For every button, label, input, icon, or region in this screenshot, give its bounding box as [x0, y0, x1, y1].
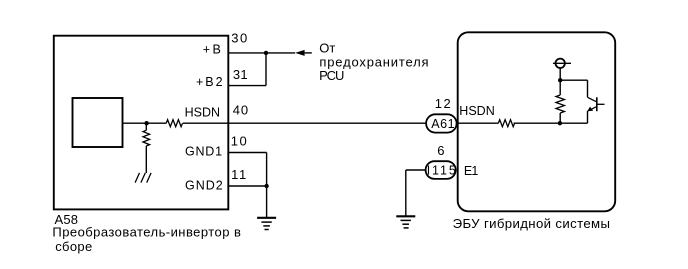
- converter box A58: [54, 36, 229, 210]
- svg-text:сборе: сборе: [55, 239, 92, 254]
- pin number 31: [233, 67, 248, 82]
- wire HSDN net: [228, 122, 457, 124]
- power node circle: [553, 59, 571, 68]
- svg-text:GND2: GND2: [185, 178, 224, 192]
- transistor Q internal: [587, 97, 604, 123]
- connector label A61: [431, 117, 455, 131]
- wire ground bus: [266, 153, 268, 218]
- svg-text:+B: +B: [203, 42, 223, 56]
- svg-text:GND1: GND1: [185, 145, 223, 159]
- svg-text:A61: A61: [431, 117, 455, 131]
- pin number 40: [233, 102, 249, 117]
- pin number 12: [435, 96, 453, 111]
- svg-text:31: 31: [233, 67, 248, 82]
- pin label +B2: [196, 75, 225, 89]
- connector label I115: [427, 164, 458, 178]
- svg-text:30: 30: [231, 31, 248, 46]
- svg-text:ЭБУ гибридной системы: ЭБУ гибридной системы: [453, 216, 611, 231]
- chassis ground inside A58: [135, 173, 151, 183]
- wire E1 to ground: [406, 170, 426, 216]
- wire pin 11 GND2: [228, 185, 266, 187]
- wire node to collector: [560, 80, 587, 97]
- wire module to node: [123, 122, 147, 124]
- note from-PCU line2: [319, 54, 429, 69]
- svg-text:+B2: +B2: [196, 75, 225, 89]
- pin label HSDN: [185, 105, 220, 119]
- wire HSDN to transistor emitter: [560, 122, 588, 124]
- pin number 30: [231, 31, 248, 46]
- wire pin 10 GND1: [228, 152, 266, 154]
- svg-text:I115: I115: [427, 164, 458, 178]
- svg-text:11: 11: [231, 167, 248, 182]
- svg-text:Преобразователь-инвертор в: Преобразователь-инвертор в: [52, 225, 241, 240]
- svg-text:40: 40: [233, 102, 249, 117]
- arrow from PCU fuse: [295, 50, 312, 56]
- junction node inside A58: [144, 121, 148, 125]
- earth ground right: [396, 216, 415, 228]
- junction HSDN pull-up node: [558, 121, 562, 125]
- resistor ECU pull-up: [556, 80, 564, 123]
- note from-PCU line3: [319, 68, 344, 83]
- svg-text:10: 10: [231, 134, 249, 149]
- caption converter line2: [55, 239, 92, 254]
- pin label +B: [203, 42, 223, 56]
- junction GND2 node: [264, 184, 268, 188]
- wire pin 30 +B: [228, 52, 295, 54]
- svg-text:PCU: PCU: [319, 68, 344, 83]
- pin label E1: [464, 164, 478, 178]
- svg-text:HSDN: HSDN: [459, 104, 494, 118]
- wire power to node: [559, 68, 561, 80]
- connector A61 pin 12: [426, 114, 457, 132]
- caption ECU: [453, 216, 611, 231]
- net label HSDN at ECU: [459, 104, 494, 118]
- svg-text:HSDN: HSDN: [185, 105, 220, 119]
- resistor internal series: [147, 120, 229, 127]
- resistor internal pull-down: [143, 123, 150, 173]
- pin label GND1: [185, 145, 223, 159]
- svg-text:12: 12: [435, 96, 453, 111]
- svg-text:E1: E1: [464, 164, 478, 178]
- inner module block: [73, 98, 123, 147]
- wire pin 31 +B2: [228, 53, 266, 86]
- svg-text:6: 6: [437, 143, 444, 158]
- junction +B node: [264, 51, 268, 55]
- pin number 11: [231, 167, 248, 182]
- caption converter line1: [52, 225, 241, 240]
- ECU box: [458, 32, 616, 211]
- note from-PCU line1: [319, 41, 335, 56]
- earth ground left: [257, 218, 276, 230]
- junction pull-up top node: [558, 78, 562, 82]
- pin label GND2: [185, 178, 224, 192]
- pin number 10: [231, 134, 249, 149]
- connector I115 pin 6: [426, 161, 456, 179]
- caption A58: [55, 212, 79, 227]
- pin number 6: [437, 143, 444, 158]
- resistor ECU series: [458, 120, 560, 127]
